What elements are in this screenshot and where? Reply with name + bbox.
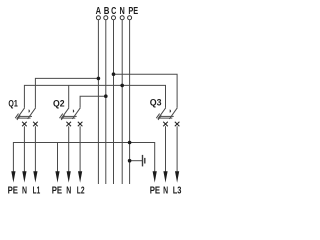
svg-text:N: N (120, 5, 125, 17)
bus N (121, 20, 123, 184)
node dot C (112, 72, 116, 76)
node dot A (97, 77, 101, 81)
svg-text:A: A (96, 5, 102, 17)
svg-text:C: C (111, 5, 116, 17)
circuit breaker Q3 (156, 108, 179, 127)
arrow output PE1 (11, 171, 15, 182)
wire A to Q1 L1 pole (35, 78, 98, 107)
terminal A (96, 16, 100, 20)
svg-text:L3: L3 (173, 185, 182, 196)
arrow output L3 (175, 171, 179, 182)
bus B (105, 20, 107, 184)
wire N branch to Q2 N pole (68, 85, 70, 107)
svg-text:PE: PE (8, 185, 18, 196)
node dot earth tap (128, 159, 132, 163)
wire N to Q3 N pole (122, 85, 165, 107)
bus C (113, 20, 115, 184)
earth tap wire (130, 160, 143, 162)
bus A (97, 20, 99, 184)
arrow output L2 (78, 171, 82, 182)
svg-text:Q2: Q2 (53, 98, 65, 109)
svg-text:L1: L1 (33, 185, 41, 196)
arrow output PE3 (153, 171, 157, 182)
arrow output N3 (163, 171, 167, 182)
svg-text:L2: L2 (77, 185, 85, 196)
svg-text:N: N (66, 185, 71, 196)
svg-text:Q1: Q1 (8, 98, 18, 109)
terminal N (120, 16, 124, 20)
terminal PE (128, 16, 132, 20)
arrow output PE2 (55, 171, 59, 182)
svg-text:N: N (22, 185, 27, 196)
arrow output N2 (67, 171, 71, 182)
wire Q2 L pole to output L2 (79, 126, 81, 176)
terminal B (104, 16, 108, 20)
svg-text:Q3: Q3 (150, 98, 162, 109)
wire N to Q1 N pole (24, 85, 122, 107)
circuit breaker Q1 (15, 108, 38, 127)
svg-text:B: B (104, 5, 110, 17)
wire Q3 N pole to output N3 (165, 126, 167, 176)
svg-text:PE: PE (150, 185, 160, 196)
bus PE (129, 20, 131, 184)
wire Q3 L pole to output L3 (176, 126, 178, 176)
wire Q1 L pole to output L1 (34, 126, 36, 176)
wire B to Q2 L2 pole (80, 96, 106, 108)
circuit breaker Q2 (60, 108, 83, 127)
terminal C (112, 16, 116, 20)
PE distribution wire (13, 143, 154, 177)
svg-text:PE: PE (52, 185, 62, 196)
node dot N (120, 84, 124, 88)
wire Q2 N pole to output N2 (68, 126, 70, 176)
wire Q1 N pole to output N1 (23, 126, 25, 176)
arrow output L1 (33, 171, 37, 182)
wire C to Q3 L3 pole (114, 74, 178, 108)
PE branch to output PE2 (57, 143, 59, 177)
earth symbol (143, 155, 145, 167)
node dot PE bus (128, 141, 132, 145)
arrow output N1 (22, 171, 26, 182)
svg-text:N: N (163, 185, 168, 196)
node dot B (104, 94, 108, 98)
svg-text:PE: PE (128, 5, 138, 17)
